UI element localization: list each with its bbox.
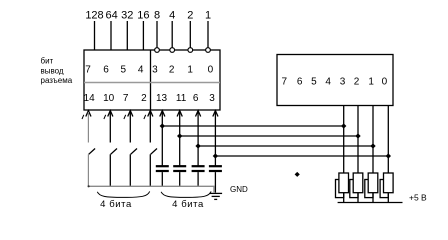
wire bit8 to connector	[156, 21, 158, 48]
capacitor C3	[192, 166, 205, 171]
ground bus end hook	[213, 186, 215, 192]
stray node dot	[295, 172, 300, 177]
wire bit1 to connector	[207, 21, 209, 48]
wire switch S1 upper (gray)	[87, 112, 89, 143]
svg-text:1: 1	[368, 77, 374, 88]
wire R1 to +5V bus	[343, 193, 345, 203]
node dot bus left corner	[88, 185, 90, 187]
node dot on pin6 wire	[195, 143, 200, 148]
tick mark left of arrow pin10	[104, 115, 106, 119]
wire J2 bit3 down	[343, 106, 345, 174]
switch S4 blade	[151, 149, 157, 155]
svg-text:0: 0	[382, 77, 388, 88]
arrow into pin14	[86, 111, 91, 117]
svg-text:1: 1	[187, 65, 193, 76]
svg-text:+5 В: +5 В	[409, 193, 427, 203]
svg-text:128: 128	[85, 10, 103, 22]
node dot net bit1 right	[370, 143, 375, 148]
tick mark left of arrow pin14	[82, 115, 84, 119]
svg-text:7: 7	[85, 65, 91, 76]
wire J2 bit0 down	[387, 106, 389, 174]
svg-text:6: 6	[297, 77, 303, 88]
resistor R8 (back of R4)	[380, 180, 388, 198]
node dot net bit3 right	[341, 123, 346, 128]
wire switch S1 lower (gray)	[87, 154, 89, 186]
svg-text:0: 0	[208, 65, 214, 76]
wire capacitor C4 to ground	[214, 172, 216, 193]
connector J2 bit labels	[282, 77, 388, 88]
wire bit2 to connector	[189, 21, 191, 48]
connector J1 nibble divider	[150, 50, 152, 110]
svg-text:11: 11	[176, 93, 187, 104]
svg-text:10: 10	[103, 93, 115, 104]
wire capacitor C3 to bus	[197, 172, 199, 186]
switch S1 blade	[89, 149, 95, 155]
inverting circle bit8	[155, 48, 160, 53]
svg-text:3: 3	[209, 93, 215, 104]
svg-text:GND: GND	[230, 185, 248, 194]
inverting circle bit1	[206, 48, 211, 53]
wire bit16 to connector	[142, 21, 144, 50]
tick mark left of arrow pin2	[144, 115, 146, 119]
arrow into pin6	[196, 111, 201, 117]
brace lower nibble	[97, 191, 149, 197]
wire bit32 to connector	[126, 21, 128, 50]
wire switch S4 lower	[149, 154, 151, 186]
arrow into pin13	[160, 111, 165, 117]
wire pin6 to capacitor C3	[197, 112, 199, 166]
ground symbol	[209, 193, 222, 199]
wire R3 to +5V bus	[372, 193, 374, 203]
wire R4 to +5V bus	[387, 193, 389, 203]
brace upper nibble	[161, 191, 211, 197]
svg-text:64: 64	[105, 10, 117, 22]
resistor R4	[384, 173, 394, 193]
svg-text:4: 4	[169, 10, 175, 22]
wire net bit3 horizontal	[162, 125, 343, 127]
wire capacitor C2 to bus	[179, 172, 181, 186]
node dot on pin3 wire	[213, 153, 218, 158]
svg-text:вывод: вывод	[41, 67, 64, 76]
svg-text:16: 16	[137, 10, 149, 22]
wire pin11 to capacitor C2	[179, 112, 181, 166]
connector J1 pin row	[84, 93, 216, 104]
svg-text:2: 2	[169, 65, 175, 76]
resistor R1	[339, 173, 349, 193]
svg-text:13: 13	[156, 93, 168, 104]
resistor R2	[353, 173, 363, 193]
capacitor C1	[156, 166, 169, 171]
svg-text:6: 6	[103, 65, 109, 76]
switch S2 blade	[111, 149, 117, 155]
svg-text:6: 6	[193, 93, 199, 104]
svg-text:2: 2	[354, 77, 360, 88]
wire R2 to +5V bus	[357, 193, 359, 203]
svg-text:2: 2	[187, 10, 193, 22]
wire switch S4 upper	[149, 112, 151, 143]
connector J1 bit row	[85, 65, 213, 76]
wire switch S2 upper	[109, 112, 111, 143]
svg-text:7: 7	[282, 77, 288, 88]
tick mark left of arrow pin7	[124, 115, 126, 119]
capacitor C2	[173, 166, 186, 171]
connector J1 row divider	[84, 82, 220, 84]
ground bus (gray)	[88, 185, 215, 187]
inverting circle bit2	[188, 48, 193, 53]
svg-text:1: 1	[205, 10, 211, 22]
svg-text:3: 3	[340, 77, 346, 88]
wire net bit0 horizontal	[215, 155, 388, 157]
svg-text:4: 4	[325, 77, 331, 88]
wire capacitor C1 to bus	[161, 172, 163, 186]
wire switch S3 lower	[129, 154, 131, 186]
wire bit64 to connector	[110, 21, 112, 50]
wire net bit1 horizontal	[198, 145, 373, 147]
svg-text:5: 5	[311, 77, 317, 88]
arrow into pin2	[148, 111, 153, 117]
svg-text:5: 5	[121, 65, 127, 76]
svg-text:8: 8	[154, 10, 160, 22]
connector J1 body	[84, 50, 220, 110]
resistor R3	[368, 173, 378, 193]
resistor R7 (back of R3)	[365, 180, 373, 198]
switch S3 blade	[131, 149, 137, 155]
inverting circle bit4	[170, 48, 175, 53]
svg-text:32: 32	[121, 10, 133, 22]
node dot net bit0 right	[386, 153, 391, 158]
svg-text:4 бита: 4 бита	[100, 199, 132, 210]
svg-text:разъема: разъема	[41, 76, 73, 85]
wire pin3 to capacitor C4	[214, 112, 216, 166]
capacitor C4	[209, 166, 222, 171]
svg-text:2: 2	[141, 93, 147, 104]
svg-text:4: 4	[138, 65, 144, 76]
arrow into pin3	[213, 111, 218, 117]
wire bit128 to connector	[94, 21, 96, 50]
connector J2 body	[277, 55, 393, 106]
wire net bit2 horizontal	[180, 135, 358, 137]
arrow into pin10	[108, 111, 113, 117]
svg-text:4 бита: 4 бита	[172, 199, 204, 210]
wire pin13 to capacitor C1	[161, 112, 163, 166]
arrow into pin11	[177, 111, 182, 117]
svg-text:14: 14	[84, 93, 96, 104]
resistor R6 (back of R2)	[350, 180, 358, 198]
+5V bus	[338, 202, 403, 204]
node dot on pin13 wire	[160, 123, 165, 128]
resistor R5 (back of R1)	[336, 180, 344, 198]
svg-text:бит: бит	[41, 57, 54, 66]
arrow into pin7	[128, 111, 133, 117]
label bit/pin of connector	[41, 57, 73, 86]
wire switch S3 upper	[129, 112, 131, 143]
node dot on pin11 wire	[177, 133, 182, 138]
wire J2 bit1 down	[372, 106, 374, 174]
wire switch S2 lower	[109, 154, 111, 186]
svg-text:7: 7	[123, 93, 129, 104]
wire J2 bit2 down	[357, 106, 359, 174]
wire bit4 to connector	[171, 21, 173, 48]
svg-text:3: 3	[152, 65, 158, 76]
node dot net bit2 right	[355, 133, 360, 138]
